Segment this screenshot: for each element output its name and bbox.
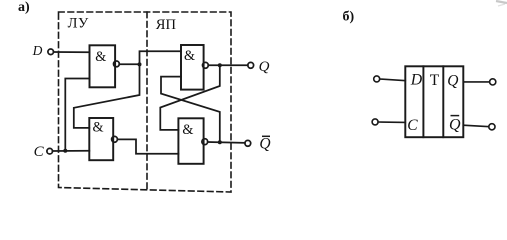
svg-text:Q: Q	[449, 116, 461, 133]
svg-text:ЛУ: ЛУ	[68, 16, 89, 32]
svg-text:D: D	[32, 43, 43, 58]
svg-text:Q: Q	[259, 59, 270, 75]
svg-text:T: T	[430, 72, 440, 89]
svg-text:C: C	[407, 117, 418, 134]
svg-text:б): б)	[343, 9, 355, 24]
svg-text:Q: Q	[447, 72, 458, 89]
svg-text:&: &	[93, 119, 104, 135]
svg-text:&: &	[95, 49, 106, 65]
svg-text:а): а)	[18, 0, 30, 15]
svg-text:C: C	[34, 144, 45, 160]
svg-text:D: D	[410, 72, 423, 89]
svg-text:Q: Q	[259, 136, 270, 153]
svg-text:&: &	[182, 122, 193, 138]
svg-text:&: &	[184, 48, 195, 64]
svg-text:ЯП: ЯП	[156, 17, 177, 33]
